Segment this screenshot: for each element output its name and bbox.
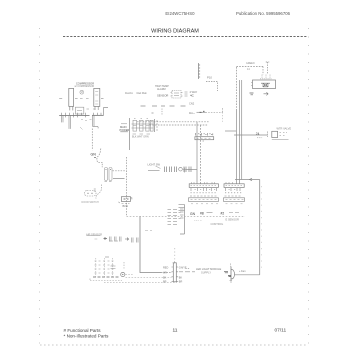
J2 pin number dashes (226, 185, 243, 187)
small dashes below bus (81, 120, 92, 121)
inline plug pair c (175, 167, 177, 173)
wire label line dashed part (206, 108, 223, 113)
overload box marks (77, 110, 82, 112)
tick row above J1 (192, 182, 215, 184)
riser dashed vertical (126, 157, 128, 216)
small text above grid (109, 240, 118, 242)
board lower box right (224, 198, 245, 202)
wire dashed vertical plug lead (266, 62, 269, 75)
svg-text:LED LIGHT MODULE: LED LIGHT MODULE (196, 267, 221, 271)
sensor dark mark (104, 237, 108, 240)
wire pair below bus second (69, 115, 71, 128)
wire fan to right vertical (235, 274, 260, 276)
door switch contacts (87, 192, 93, 194)
left exit wire 2 (179, 207, 185, 209)
overload pin stub left (94, 106, 96, 110)
J2 pin label dashes row2 (225, 192, 241, 194)
door connector pin2 (172, 271, 179, 273)
J1 pin number dashes (191, 185, 217, 187)
dashes right of label (229, 212, 239, 214)
ballast internal mark (124, 198, 129, 200)
svg-text:#2: #2 (221, 212, 225, 216)
svg-text:EI24WC75HS0: EI24WC75HS0 (165, 11, 195, 16)
right long vertical wire (259, 180, 261, 275)
air sensor underline (87, 234, 101, 236)
arrow mark below plug (264, 92, 269, 95)
water valve contacts (280, 133, 288, 136)
wire stub left of verticals (225, 130, 236, 132)
display grid vertical dashed left (95, 258, 97, 277)
cluster terminal column 3 (146, 120, 149, 131)
label right of overload (101, 98, 104, 100)
display grid label (105, 256, 109, 258)
svg-text:Cut In: Cut In (125, 91, 133, 95)
cluster terminal column 1 (133, 120, 137, 131)
dashed bus below connector (104, 282, 177, 284)
svg-text:POWER: POWER (120, 128, 130, 132)
svg-text:CONTROL: CONTROL (211, 222, 224, 226)
svg-text:w/ COMPRESSOR: w/ COMPRESSOR (75, 86, 95, 88)
door switch terminal marks (94, 189, 96, 191)
left text block row4 (180, 217, 184, 219)
small text after label (207, 212, 213, 214)
power plug box (253, 80, 276, 89)
svg-text:# Functional Parts: # Functional Parts (64, 328, 102, 333)
lamp top contact dots (106, 169, 112, 171)
svg-text:BLK WHT GRN: BLK WHT GRN (132, 136, 149, 139)
relay pin stub left (69, 106, 71, 110)
left text block row3 (180, 214, 184, 216)
inline plug pair e (189, 167, 191, 173)
svg-text:Cut Out: Cut Out (137, 91, 147, 95)
double dashed bus lower (150, 124, 209, 126)
svg-text:#8: #8 (200, 212, 204, 216)
thermostat side pins (171, 93, 183, 97)
svg-text:Publication No. 5995596706: Publication No. 5995596706 (236, 11, 291, 16)
display grid row 2 (95, 264, 114, 266)
svg-text:BK: BK (179, 276, 183, 279)
terminal bus line left segment (59, 114, 89, 116)
wire long vertical v1 solid part (235, 110, 237, 184)
tick row above J2 (226, 182, 233, 184)
svg-text:WH: WH (163, 271, 167, 274)
mid connector box (195, 137, 214, 140)
ground hatch inside plug (261, 83, 270, 87)
svg-text:GREEN: GREEN (246, 62, 255, 65)
fan motor bottom marks (230, 281, 233, 283)
label row mid marks (80, 98, 89, 100)
dashed bus into connector row3 (126, 277, 172, 279)
svg-text:+ Fan: + Fan (239, 270, 246, 273)
label row left of relay (59, 98, 62, 100)
left exit wire 3 (179, 210, 185, 212)
wire arc to lamp (97, 149, 102, 168)
label dash under 24 (257, 137, 263, 139)
svg-text:SUPPLY: SUPPLY (201, 271, 211, 275)
wire long vertical v3 (241, 80, 243, 180)
wire label line with hook (197, 111, 206, 113)
svg-text:BR: BR (163, 281, 167, 284)
arrow on wire (250, 178, 253, 180)
relay tall box (69, 88, 74, 106)
svg-text:RED: RED (163, 267, 168, 270)
door connector dashed top lead (174, 248, 176, 262)
svg-text:BR: BR (179, 281, 183, 284)
left edge vertical wire (180, 205, 185, 235)
svg-text:AIR SENSOR: AIR SENSOR (86, 232, 102, 236)
door switch lever arc (96, 185, 102, 199)
cluster terminal column 2 divider (140, 125, 144, 127)
cluster top marks (134, 118, 148, 120)
door connector pin1 (172, 266, 179, 268)
water valve underline (272, 139, 289, 141)
label mark under GN (94, 157, 96, 159)
left text block row1 (180, 208, 184, 210)
junction circle dashes right (126, 274, 134, 276)
door connector box (173, 263, 176, 282)
bottom page dotted border (40, 344, 307, 346)
display grid row 1 (95, 260, 114, 262)
ballast label marks (122, 203, 130, 205)
door switch body dashed oval (85, 191, 97, 197)
inline connector pair 2 (115, 237, 117, 242)
power blob underline (120, 131, 128, 133)
wire long vertical v1 from plug (235, 67, 237, 110)
water valve box (272, 131, 278, 137)
cluster horizontal link lower (132, 127, 154, 129)
fan motor body vertical (230, 267, 232, 281)
wire pair jog below bus right (93, 115, 99, 128)
label below plug left (250, 93, 254, 95)
relay pin stub right (72, 106, 74, 110)
junction circle center (122, 274, 123, 275)
svg-text:07/11: 07/11 (275, 328, 287, 334)
wire dashed down from bus to board (200, 125, 202, 184)
board lower box left (189, 198, 219, 202)
svg-text:P10: P10 (207, 76, 212, 80)
wire dashed from lamp to riser (113, 170, 127, 172)
motor winding symbol (80, 90, 84, 94)
svg-text:24: 24 (256, 132, 260, 136)
bracket hook right of bus (100, 108, 108, 116)
wire dashed vertical into plug (262, 67, 264, 75)
display grid row 3 (95, 268, 114, 270)
J1 pin label dashes row2 (191, 192, 216, 194)
fan motor left label dark (224, 271, 228, 273)
slash marks below bus (80, 127, 83, 130)
cluster terminal column 3 divider (146, 125, 149, 127)
svg-text:GN: GN (91, 153, 97, 157)
wire color label row under top center (141, 105, 186, 107)
pin name list column (168, 210, 181, 225)
cluster right vertical (154, 119, 156, 132)
inline connector pair 4 (132, 238, 134, 243)
junction dashed vertical up (123, 262, 125, 269)
cluster right marks (156, 121, 158, 130)
ballast left tick (119, 202, 120, 203)
pin marks right of thermostat (185, 92, 188, 96)
wire-nut label rows left (111, 266, 116, 269)
fan motor dark blob (228, 276, 231, 277)
board lower box right dashes (226, 199, 244, 201)
cluster horizontal link upper (132, 123, 154, 125)
header dashed rule (63, 36, 307, 38)
right row2 wire with marks (179, 271, 195, 273)
dashes continuing to connector (161, 272, 172, 274)
svg-text:COMPRESSOR: COMPRESSOR (76, 82, 94, 85)
wire pair below bus leftmost (62, 115, 64, 122)
svg-text:Cn--: Cn-- (189, 111, 195, 115)
lamp bottom marks (105, 181, 112, 183)
inline plug circle (179, 167, 183, 171)
wire solid from lamp to riser (113, 178, 125, 180)
ballast box (121, 197, 130, 202)
J1 pin text rows (191, 188, 217, 191)
small label above bus (152, 112, 154, 114)
fan motor top lead (230, 264, 232, 267)
label underline (148, 170, 160, 172)
cluster vertical wire (129, 118, 131, 150)
svg-text:* Non-Illustrated Parts: * Non-Illustrated Parts (64, 334, 110, 339)
door connector pin4 (172, 280, 179, 282)
ballast right nub (131, 198, 132, 200)
LED module dash lead (186, 267, 191, 269)
svg-text:- -- - --: - -- - -- (194, 219, 202, 222)
double dashed bus upper (137, 121, 210, 123)
cluster terminal column 1 divider (133, 125, 137, 127)
plug prongs (260, 75, 272, 79)
J1 mark row (190, 195, 217, 197)
wire long vertical v2 (239, 80, 241, 184)
terminal bus line right segment (92, 114, 103, 116)
tick right of wire pair (203, 140, 205, 142)
pin marks mid row (87, 108, 96, 110)
svg-text:LIGHT SW: LIGHT SW (148, 163, 161, 167)
board connector J2 box (224, 184, 244, 188)
bus ticks above (62, 113, 102, 116)
wire from corner symbol to riser pair (187, 169, 198, 171)
left page dotted border (39, 28, 41, 345)
wire corner into water valve (267, 132, 269, 138)
cluster terminal column 2 (140, 120, 144, 131)
right vertical dashed companion (261, 186, 263, 268)
inline connector pair 3 (120, 237, 122, 242)
dashes below lower boxes (191, 203, 243, 205)
connector tick strip vertical (199, 63, 201, 79)
dashed wire under grid (90, 279, 122, 281)
cluster labels below (133, 133, 151, 135)
svg-text:BLW: BLW (123, 204, 129, 208)
wire drop from label line to bus (222, 112, 224, 122)
inline plug pair d (184, 167, 186, 173)
wire dashed hook from P10 (206, 82, 218, 92)
right page dotted border (308, 28, 310, 345)
display grid vertical right (111, 258, 113, 277)
left text block row2 (180, 211, 184, 213)
fan motor half capsule (231, 270, 234, 279)
plug box left pin ticks (251, 83, 253, 86)
wire down from bus to board left pin (196, 122, 198, 184)
inline plug pair b (170, 167, 172, 173)
inline connector pair 1 (110, 237, 112, 242)
wire squiggle below label row (161, 109, 163, 115)
cluster terminal column 4 (150, 120, 153, 131)
overload small box (75, 107, 83, 114)
mid connector label row (196, 133, 213, 136)
bus stubs below (66, 115, 86, 117)
long dashed bus under board (127, 215, 246, 217)
lamp holder right tube (109, 168, 112, 181)
small mark under sensor label (95, 238, 98, 240)
overload internal ticks (95, 92, 98, 105)
display grid vertical dashed (103, 258, 105, 277)
wire dashed horizontal to power cord (236, 66, 263, 68)
winding cross (81, 91, 84, 94)
label row right of relay (75, 98, 78, 100)
mid connector box dashes (197, 137, 211, 139)
dark marks on label line (200, 111, 205, 112)
svg-text:CN2: CN2 (189, 102, 195, 106)
svg-text:WIRING DIAGRAM: WIRING DIAGRAM (151, 29, 199, 35)
overload protector tall box (94, 88, 100, 106)
board left corner symbol (183, 168, 187, 173)
junction circle (121, 272, 125, 276)
svg-text:SENSOR: SENSOR (157, 94, 168, 98)
J2 mark row (225, 195, 241, 197)
svg-text:WTR VALVE: WTR VALVE (277, 127, 292, 131)
wire dashed vertical down-left (91, 129, 93, 151)
thermostat box (172, 91, 181, 99)
door connector pin3 (172, 276, 179, 278)
evap fan vertical wire (140, 217, 161, 273)
board lower box left dashes (191, 199, 217, 201)
J2 pin text rows (226, 188, 241, 191)
svg-text:ALARM: ALARM (157, 88, 166, 91)
slash after label (156, 166, 161, 169)
svg-text:GN: GN (190, 212, 196, 216)
board connector J1 box (189, 184, 218, 188)
wire from board to right vertical (235, 179, 260, 181)
inline plug pair a (165, 167, 167, 173)
lamp holder left tube (105, 168, 108, 181)
display grid row 4 (95, 272, 114, 274)
wire to water valve (234, 134, 268, 136)
left exit wire 1 (179, 204, 185, 206)
display grid bottom dark row (93, 276, 119, 278)
small marks left of bus (145, 230, 152, 232)
inline connector pair 5 (137, 238, 139, 243)
svg-text:11: 11 (173, 328, 178, 334)
svg-text:E SENSOR: E SENSOR (226, 218, 240, 222)
overload pin stub right (97, 106, 99, 110)
door connector top hook (173, 261, 175, 263)
power blob top mark (121, 123, 127, 125)
svg-text:DOOR SWITCH: DOOR SWITCH (82, 201, 100, 204)
thermostat internal marks (174, 93, 179, 96)
inline connector arrow (125, 238, 129, 241)
